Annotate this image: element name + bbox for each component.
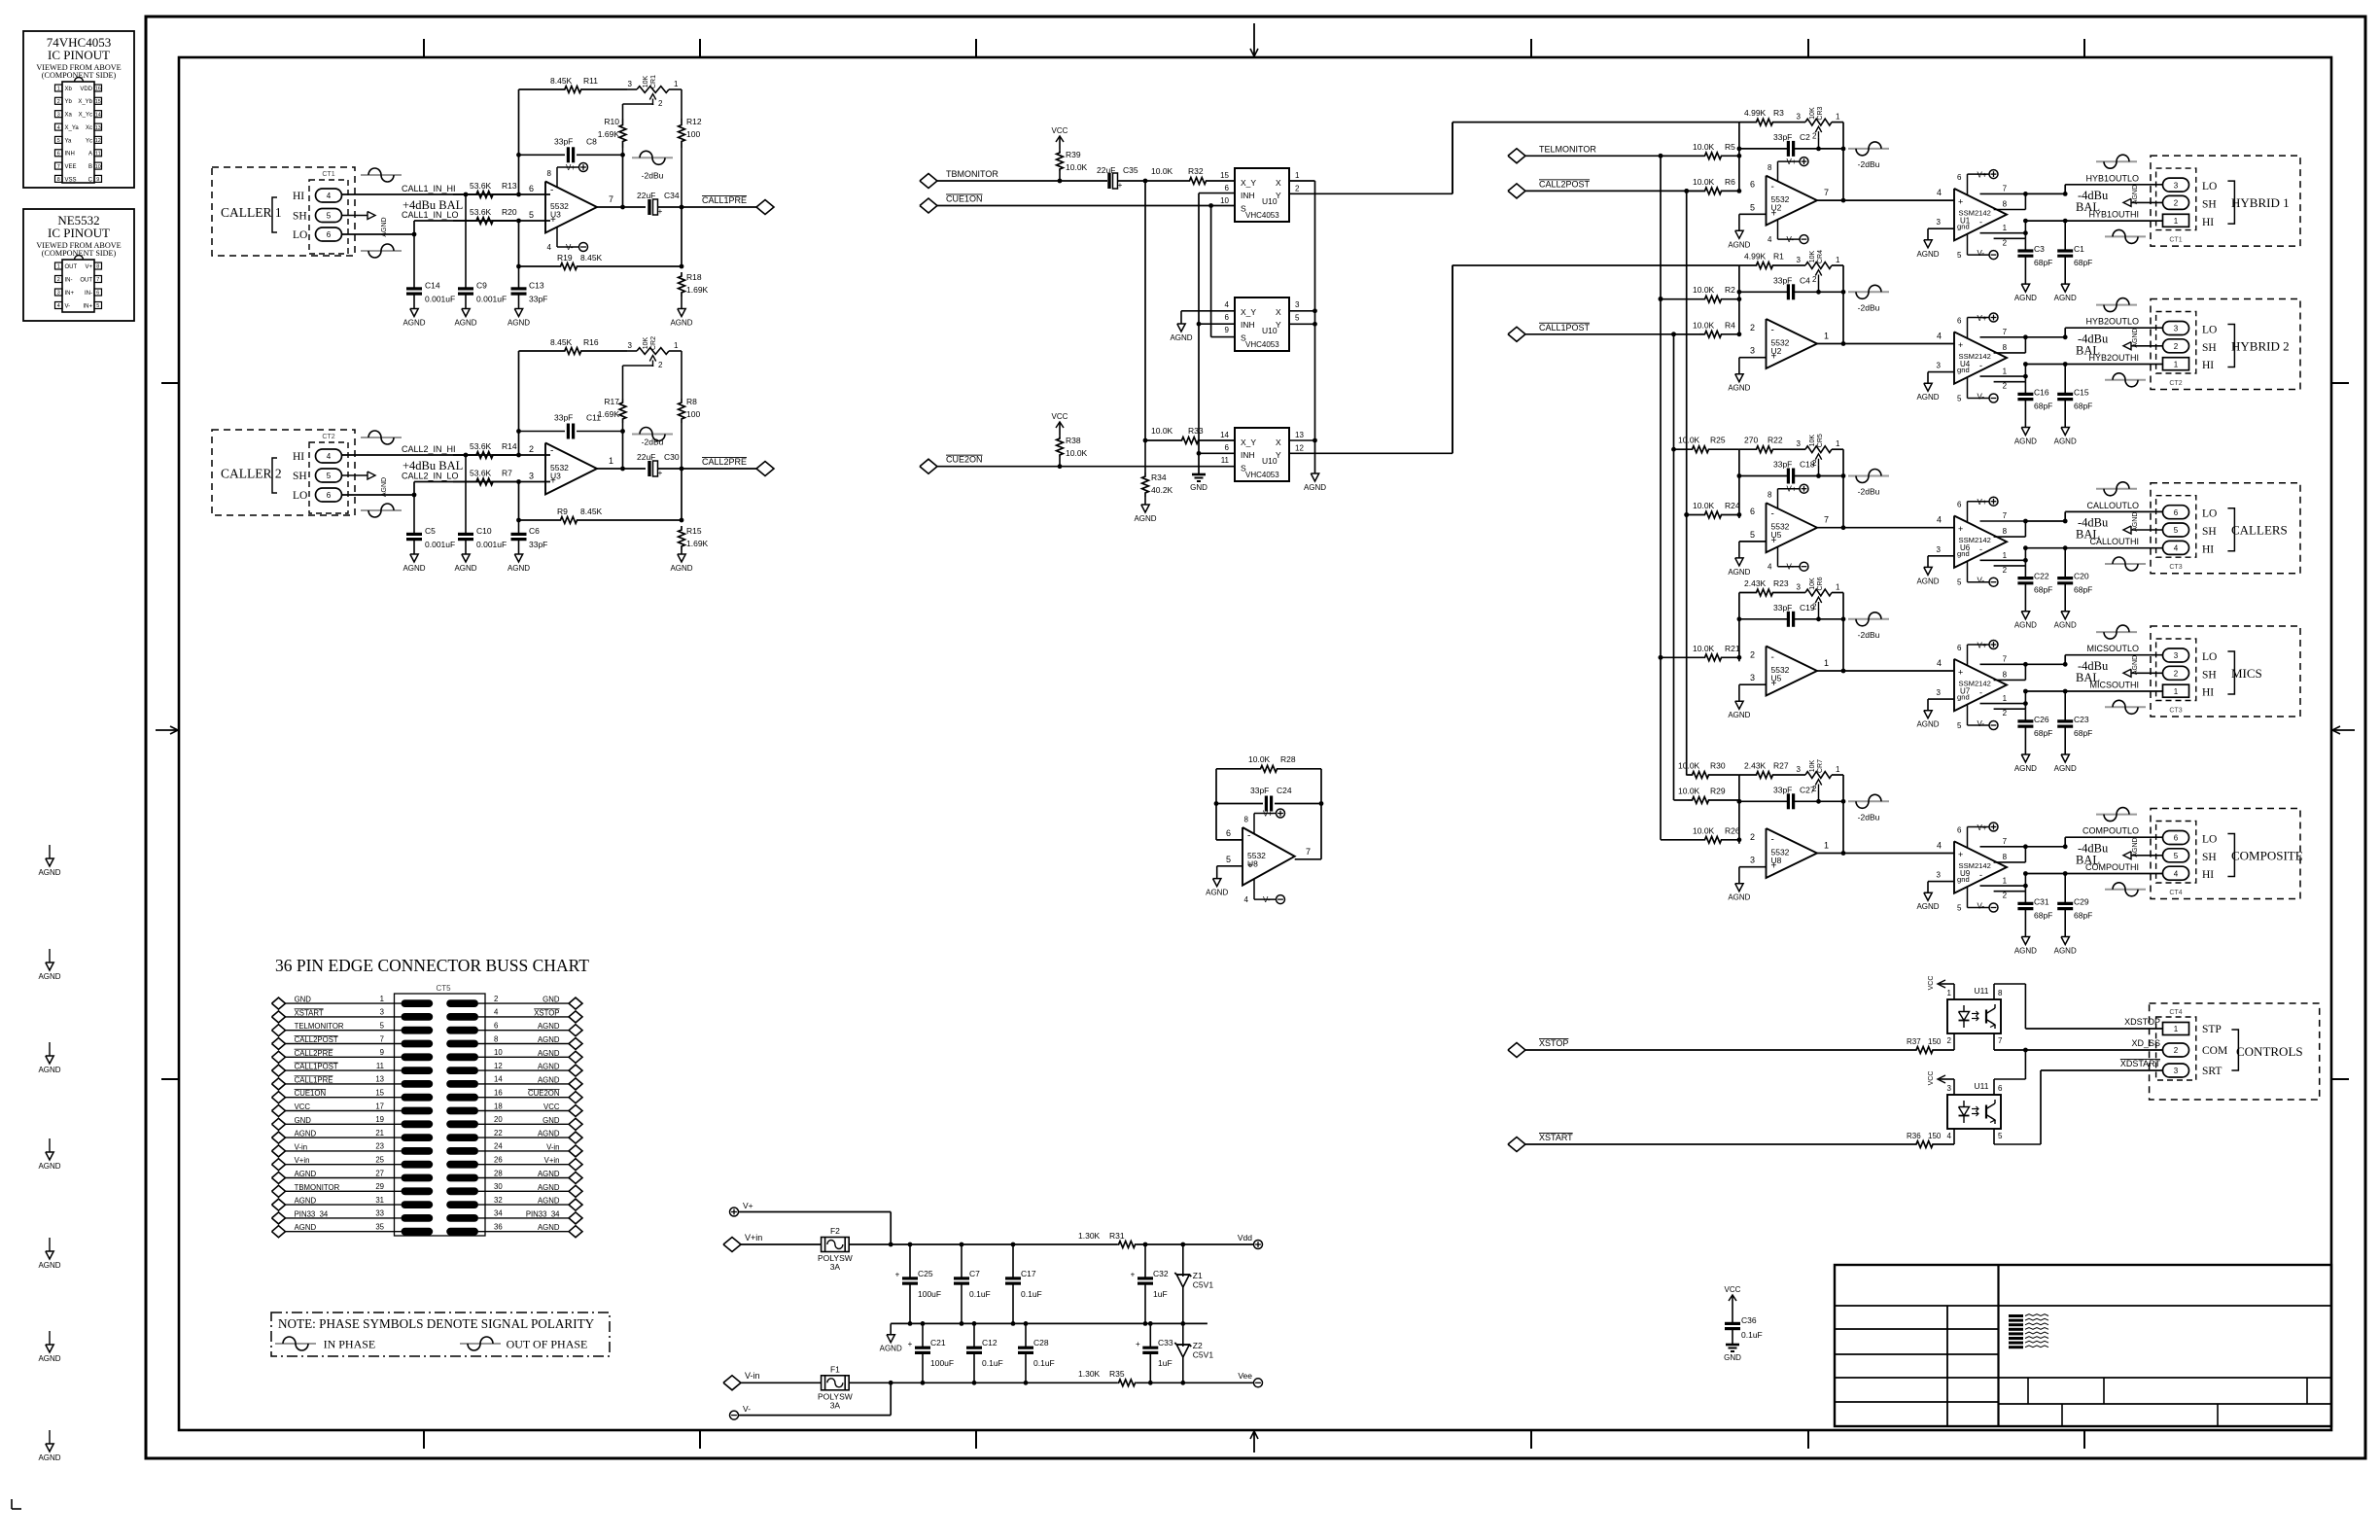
svg-text:X_Y: X_Y <box>1241 307 1256 317</box>
svg-text:8: 8 <box>494 1034 498 1043</box>
pin number 30 <box>494 1182 503 1191</box>
svg-text:HI: HI <box>2202 360 2214 371</box>
svg-text:3A: 3A <box>830 1262 841 1272</box>
net label AGND pin 22 <box>538 1130 560 1138</box>
svg-text:V+in: V+in <box>745 1233 762 1242</box>
line driver U7 SSM2142 channel 4 <box>1954 641 2007 731</box>
svg-text:-2dBu: -2dBu <box>1858 302 1880 312</box>
resistor R15 1.69K <box>679 469 709 554</box>
node diamond CALL1PRE <box>756 200 774 215</box>
phase symbol -2dBu caller 1 <box>632 151 673 180</box>
ground AGND under C16 <box>2014 428 2037 446</box>
net label COMPOUTLO <box>2082 826 2139 836</box>
svg-text:V+: V+ <box>1787 485 1797 494</box>
op-amp U8 pin numbers <box>1226 828 1311 864</box>
edge connector wire right 34 <box>478 1217 570 1219</box>
border center arrow right <box>2332 726 2355 734</box>
net label CALLOUTHI <box>2089 537 2139 546</box>
capacitor C36 0.1uF <box>1725 1309 1763 1345</box>
edge connector wire left 31 <box>285 1204 402 1206</box>
svg-text:3: 3 <box>529 472 534 481</box>
+4dBu BAL label <box>402 198 463 212</box>
svg-text:1: 1 <box>2003 694 2008 703</box>
U10c Y output wire <box>1289 265 1452 454</box>
U10b S wire <box>1211 206 1235 337</box>
svg-text:C: C <box>88 177 93 183</box>
svg-text:3: 3 <box>1947 1084 1952 1093</box>
edge connector wire right 8 <box>478 1043 570 1045</box>
svg-text:11: 11 <box>95 151 101 157</box>
resistor R11 8.45K feedback <box>519 76 628 92</box>
connector CT4 pin 4 <box>2163 866 2189 880</box>
wire input row R21 <box>1659 655 1704 660</box>
connector CT4 label controls <box>2169 1009 2182 1016</box>
resistor R13 53.6K <box>453 181 517 197</box>
svg-text:GND: GND <box>1724 1353 1741 1362</box>
svg-text:+: + <box>658 469 663 477</box>
wire channel2 feedback row to U10c Y <box>1452 265 1739 453</box>
node diamond V-in <box>723 1376 741 1390</box>
svg-text:10.0K: 10.0K <box>1066 162 1088 172</box>
node diamond left 3 <box>272 1011 286 1023</box>
svg-text:5: 5 <box>96 303 99 309</box>
pin number 21 <box>375 1129 384 1137</box>
svg-text:-: - <box>1771 834 1774 845</box>
wire input row R24 <box>1684 512 1704 517</box>
svg-text:AGND: AGND <box>1728 384 1750 393</box>
svg-text:4: 4 <box>1937 841 1942 851</box>
svg-text:3: 3 <box>1797 113 1802 122</box>
svg-text:SRT: SRT <box>2202 1066 2222 1077</box>
svg-text:4.99K: 4.99K <box>1744 252 1767 262</box>
op-amp pin numbers caller 1 <box>529 184 613 220</box>
resistor R33 10.0K <box>1145 426 1235 443</box>
net label HYB1OUTLO <box>2085 173 2139 183</box>
SSM U1 gnd pin 3 <box>1928 218 1954 240</box>
svg-text:4: 4 <box>2174 544 2179 553</box>
node diamond left 5 <box>272 1025 286 1036</box>
svg-text:-2dBu: -2dBu <box>1858 812 1880 822</box>
SSM U6 gnd pin 3 <box>1928 545 1954 568</box>
ground AGND under C5 <box>402 554 425 573</box>
resistor R17 1.69K <box>598 366 626 432</box>
svg-text:IC PINOUT: IC PINOUT <box>48 226 110 240</box>
svg-text:1: 1 <box>1824 658 1829 668</box>
svg-text:U5: U5 <box>1771 530 1782 540</box>
node diamond TBMONITOR input <box>920 174 937 189</box>
svg-text:7: 7 <box>96 277 99 283</box>
svg-text:HI: HI <box>2202 687 2214 699</box>
connector CT1 inner dashed box channel 1 <box>2156 168 2196 230</box>
channel title HYBRID 1 <box>2231 195 2290 210</box>
CALLER 2 dashed enclosure box <box>212 430 355 515</box>
svg-text:AGND: AGND <box>2132 512 2139 532</box>
svg-text:33: 33 <box>375 1209 384 1218</box>
svg-text:CR1: CR1 <box>650 75 657 88</box>
svg-text:AGND: AGND <box>538 1035 560 1044</box>
svg-text:IN-: IN- <box>65 277 73 283</box>
svg-text:8: 8 <box>2003 527 2008 536</box>
channel title HYBRID 2 <box>2231 339 2290 354</box>
node diamond left 23 <box>272 1145 286 1157</box>
wire minus node rail caller 1 <box>516 89 521 196</box>
net label XSTART <box>1539 1133 1573 1142</box>
svg-text:1: 1 <box>674 341 679 350</box>
wire output to line driver channel 1 <box>1817 188 1954 200</box>
svg-text:AGND: AGND <box>1916 902 1939 911</box>
svg-text:AGND: AGND <box>2014 294 2037 302</box>
svg-text:100: 100 <box>686 409 700 419</box>
svg-text:TBMONITOR: TBMONITOR <box>295 1183 340 1192</box>
svg-text:CALL1POST: CALL1POST <box>1539 323 1591 332</box>
wire op-amp output caller 2 <box>597 432 646 472</box>
wire plus input to AGND channel 1 <box>1739 214 1767 230</box>
pin number 23 <box>375 1142 384 1151</box>
svg-text:-: - <box>1771 325 1774 335</box>
wire CALL1POST row <box>1525 332 1699 336</box>
net label CALLOUTLO <box>2086 501 2139 510</box>
capacitor C6 33pF <box>511 518 548 554</box>
svg-text:5: 5 <box>1226 855 1231 864</box>
line driver U9 SSM2142 channel 5 <box>1954 822 2007 913</box>
svg-text:8: 8 <box>1767 163 1772 172</box>
svg-text:C21: C21 <box>930 1338 946 1347</box>
svg-text:MICSOUTLO: MICSOUTLO <box>2086 644 2139 653</box>
terminal Vdd circle <box>1238 1233 1263 1249</box>
connector bracket channel 5 <box>2227 834 2234 877</box>
ground GND symbol INH rail <box>1190 474 1207 492</box>
node diamond right 16 <box>569 1092 582 1103</box>
trimmer potentiometer CR4 10K <box>1797 250 1843 295</box>
wire summing node rail channel 5 <box>1737 775 1742 844</box>
svg-text:-: - <box>1979 218 1982 227</box>
svg-text:8.45K: 8.45K <box>550 337 573 347</box>
ground AGND under C6 <box>507 554 530 573</box>
svg-text:-: - <box>1247 830 1250 841</box>
svg-text:10.0K: 10.0K <box>1693 142 1715 152</box>
node diamond XSTART <box>1508 1137 1525 1152</box>
node diamond right 4 <box>569 1011 582 1023</box>
svg-text:5: 5 <box>57 138 60 144</box>
edge connector pin 33 pad <box>402 1214 434 1222</box>
svg-text:1: 1 <box>1947 989 1952 997</box>
svg-text:C5: C5 <box>425 526 436 536</box>
svg-text:25: 25 <box>375 1156 384 1165</box>
connector CT2 pin 3 <box>2163 322 2189 335</box>
node diamond left 27 <box>272 1172 286 1184</box>
svg-text:SH: SH <box>2202 342 2217 354</box>
svg-text:6: 6 <box>1225 184 1230 192</box>
svg-text:3: 3 <box>1295 300 1300 309</box>
ground AGND plus input channel 5 <box>1728 884 1750 902</box>
connector signal label LO channel 1 <box>2202 181 2217 192</box>
wire input row R5 <box>1659 154 1704 158</box>
pin number 20 <box>494 1115 503 1124</box>
svg-text:R12: R12 <box>686 117 702 126</box>
svg-text:TELMONITOR: TELMONITOR <box>1539 144 1596 154</box>
svg-text:+: + <box>1118 181 1123 190</box>
SSM U6 pin 1 and 2 sense loop <box>1980 551 2028 575</box>
U10c X output wire <box>1289 438 1317 443</box>
capacitor C33 1uF <box>1136 1323 1173 1382</box>
shield AGND arrow channel 3 <box>2123 512 2163 534</box>
node diamond right 14 <box>569 1078 582 1090</box>
edge connector pin 22 pad <box>446 1134 478 1141</box>
svg-text:68pF: 68pF <box>2074 911 2092 921</box>
resistor R23 2.43K feedback <box>1739 578 1805 596</box>
svg-text:COMPOUTLO: COMPOUTLO <box>2082 826 2139 836</box>
connector signal label SH channel 3 <box>2202 526 2217 538</box>
ground AGND under C23 <box>2054 754 2077 773</box>
connector signal label SH channel 1 <box>2202 198 2217 210</box>
bus rail CALL2POST vertical <box>1684 191 1689 775</box>
terminal Vee circle <box>1238 1371 1262 1387</box>
in-phase label <box>324 1338 376 1351</box>
svg-text:LO: LO <box>293 490 307 502</box>
ground AGND under C1 <box>2054 284 2077 302</box>
svg-text:100uF: 100uF <box>930 1358 954 1368</box>
net label HYB1OUTHI <box>2088 210 2139 220</box>
74VHC4053 IC pinout title box <box>23 31 134 188</box>
edge connector pin 1 pad <box>402 999 434 1007</box>
edge connector wire left 17 <box>285 1110 402 1112</box>
channel title CALLERS <box>2231 523 2288 538</box>
svg-text:C35: C35 <box>1123 165 1138 175</box>
opto U11b pin numbers <box>1947 1084 2003 1140</box>
edge connector wire right 30 <box>478 1190 570 1192</box>
svg-text:OUT: OUT <box>80 277 92 283</box>
trimmer potentiometer CR1 10K <box>623 75 682 108</box>
resistor R12 100 <box>679 89 702 207</box>
svg-text:150: 150 <box>1928 1132 1942 1140</box>
ground AGND plus input channel 4 <box>1728 701 1750 719</box>
capacitor C34 22uF output <box>637 191 756 216</box>
edge connector pin 11 pad <box>402 1067 434 1074</box>
svg-text:7: 7 <box>2003 837 2008 846</box>
wire HI output channel 3 <box>2023 545 2163 560</box>
svg-text:GND: GND <box>295 996 312 1004</box>
svg-text:270: 270 <box>1744 436 1758 445</box>
svg-text:2: 2 <box>1947 1036 1952 1045</box>
edge connector pin 35 pad <box>402 1228 434 1236</box>
svg-text:8: 8 <box>96 264 99 270</box>
svg-text:NOTE: PHASE SYMBOLS DENOTE SIG: NOTE: PHASE SYMBOLS DENOTE SIGNAL POLARI… <box>278 1316 595 1331</box>
resistor R31 1.30K <box>1078 1231 1137 1247</box>
connector CT5 label <box>436 984 451 993</box>
node diamond left 25 <box>272 1159 286 1171</box>
pin number 32 <box>494 1196 503 1205</box>
svg-text:-: - <box>1771 182 1774 192</box>
svg-text:68pF: 68pF <box>2034 402 2052 411</box>
svg-text:AGND: AGND <box>38 1453 60 1462</box>
svg-text:22uF: 22uF <box>637 191 655 200</box>
analog switch U10 section C VHC4053 <box>1235 428 1289 481</box>
-4dBu BAL label channel 5 <box>2076 842 2109 867</box>
node diamond XSTOP <box>1508 1043 1525 1058</box>
svg-text:AGND: AGND <box>507 319 530 328</box>
svg-text:3: 3 <box>2174 1067 2179 1075</box>
svg-text:+: + <box>908 1340 913 1348</box>
edge connector wire right 20 <box>478 1123 570 1125</box>
wire R35 to Vee <box>1137 1381 1254 1385</box>
svg-text:1: 1 <box>2174 217 2179 226</box>
svg-text:AGND: AGND <box>2014 437 2037 446</box>
svg-text:-: - <box>1771 509 1774 520</box>
edge connector pin 3 pad <box>402 1013 434 1021</box>
svg-text:PIN33_34: PIN33_34 <box>295 1209 329 1218</box>
svg-text:30: 30 <box>494 1182 503 1191</box>
pin number 25 <box>375 1156 384 1165</box>
phase symbol -2dBu channel 2 <box>1848 285 1889 312</box>
svg-text:8: 8 <box>547 169 552 178</box>
svg-text:AGND: AGND <box>2054 621 2077 630</box>
CALLER 2 label <box>221 458 282 493</box>
svg-text:U11: U11 <box>1975 1081 1989 1091</box>
fuse F2 POLYSW 3A <box>818 1226 853 1272</box>
svg-text:HYBRID 1: HYBRID 1 <box>2231 195 2290 210</box>
ground AGND at U10b X_Y <box>1170 324 1192 342</box>
ground AGND plus input channel 3 <box>1728 558 1750 577</box>
edge connector pin 14 pad <box>446 1080 478 1088</box>
net label AGND pin 6 <box>538 1022 560 1031</box>
resistor R3 4.99K feedback <box>1739 108 1805 125</box>
svg-text:4: 4 <box>1937 515 1942 525</box>
svg-text:INH: INH <box>65 152 75 157</box>
svg-text:VCC: VCC <box>1052 412 1068 421</box>
svg-text:AGND: AGND <box>454 564 476 573</box>
svg-text:(COMPONENT SIDE): (COMPONENT SIDE) <box>42 249 117 258</box>
phase symbol top connector channel 5 <box>2096 808 2137 822</box>
svg-text:6: 6 <box>1226 828 1231 838</box>
net label XDSTART <box>2120 1059 2161 1068</box>
svg-text:C28: C28 <box>1033 1338 1049 1347</box>
svg-text:Z2: Z2 <box>1193 1341 1203 1350</box>
resistor R19 8.45K <box>519 253 684 269</box>
svg-text:R32: R32 <box>1188 166 1204 176</box>
capacitor C22 68pF <box>2017 566 2052 612</box>
svg-text:V-in: V-in <box>546 1142 559 1151</box>
title block logo scribble <box>2009 1314 2048 1347</box>
edge connector wire left 27 <box>285 1177 402 1179</box>
svg-text:V+: V+ <box>1977 823 1987 832</box>
svg-text:22uF: 22uF <box>1097 165 1115 175</box>
wire CALL1POST into R4 <box>1699 333 1704 335</box>
U10b pin numbers <box>1225 300 1300 334</box>
capacitor C32 1uF <box>1131 1244 1169 1323</box>
net label TELMONITOR pin 5 <box>295 1022 344 1031</box>
svg-text:LO: LO <box>2202 325 2217 336</box>
svg-text:7: 7 <box>1824 188 1829 197</box>
svg-text:CALL1PRE: CALL1PRE <box>702 195 747 205</box>
CALLER 1 label <box>221 197 282 232</box>
svg-text:Vdd: Vdd <box>1238 1233 1252 1242</box>
net label VCC pin 17 <box>295 1102 311 1111</box>
-4dBu BAL label channel 2 <box>2076 332 2109 358</box>
svg-text:AGND: AGND <box>1134 514 1156 523</box>
connector signal label LO channel 3 <box>2202 508 2217 520</box>
svg-text:10K: 10K <box>1809 577 1816 590</box>
wire LO output channel 3 <box>2025 511 2162 523</box>
svg-text:2: 2 <box>658 361 663 369</box>
connector CT2 pin 5 <box>316 469 342 482</box>
svg-text:5: 5 <box>529 210 534 220</box>
ground AGND mid rail stub <box>880 1323 902 1352</box>
svg-text:V-: V- <box>566 243 574 252</box>
net label XSTOP pin 4 <box>534 1008 559 1017</box>
ground AGND under R18 <box>670 309 692 328</box>
svg-text:6: 6 <box>1750 507 1755 516</box>
net label V-in pin 23 <box>295 1142 307 1151</box>
resistor R32 10.0K <box>1151 166 1235 184</box>
node diamond right 22 <box>569 1132 582 1143</box>
svg-text:-: - <box>550 186 553 196</box>
svg-text:20: 20 <box>494 1115 503 1124</box>
svg-text:BAL: BAL <box>2076 671 2100 684</box>
svg-text:7: 7 <box>1306 847 1311 857</box>
connector CT2 inner dashed box channel 2 <box>2156 312 2196 374</box>
svg-text:LO: LO <box>2202 834 2217 846</box>
wire plus input to AGND channel 2 <box>1739 358 1767 374</box>
edge connector wire left 21 <box>285 1137 402 1138</box>
connector CT2 label <box>322 434 334 440</box>
svg-text:10.0K: 10.0K <box>1151 166 1173 176</box>
svg-text:C1: C1 <box>2074 244 2084 254</box>
trimmer potentiometer CR3 10K <box>1797 106 1843 151</box>
edge connector pin 29 pad <box>402 1187 434 1195</box>
capacitor C8 33pF feedback <box>519 136 625 162</box>
net label GND pin 1 <box>295 996 312 1004</box>
svg-text:CT3: CT3 <box>2169 564 2182 571</box>
svg-text:+: + <box>895 1271 900 1279</box>
wire feedback right rail channel 5 <box>1841 775 1846 856</box>
svg-text:5: 5 <box>2174 526 2179 535</box>
net label XDSTOP <box>2124 1017 2160 1027</box>
svg-text:0.1uF: 0.1uF <box>982 1358 1003 1368</box>
net label AGND pin 28 <box>538 1170 560 1178</box>
svg-text:CALL2POST: CALL2POST <box>1539 179 1591 189</box>
wire U8 feedback rails <box>1216 769 1321 859</box>
svg-text:CR4: CR4 <box>1817 250 1824 263</box>
capacitor C9 0.001uF <box>458 194 507 309</box>
net label CUE2ON pin 16 <box>528 1089 560 1098</box>
node diamond right 12 <box>569 1065 582 1076</box>
svg-text:1: 1 <box>674 80 679 88</box>
node diamond left 19 <box>272 1118 286 1130</box>
wire LO output channel 5 <box>2025 837 2162 849</box>
wire R37 to opto <box>1938 1033 1954 1050</box>
ground AGND under switch rail <box>1304 473 1326 492</box>
svg-text:1: 1 <box>2003 224 2008 232</box>
svg-text:Y: Y <box>1276 191 1281 200</box>
node diamond right 2 <box>569 997 582 1009</box>
svg-text:C27: C27 <box>1800 785 1815 794</box>
svg-text:C31: C31 <box>2034 897 2049 907</box>
svg-text:AGND: AGND <box>2054 294 2077 302</box>
phase symbol -2dBu channel 1 <box>1848 142 1889 169</box>
net label V+in pin 25 <box>295 1156 310 1165</box>
svg-text:X_Y: X_Y <box>1241 178 1256 188</box>
node diamond V+in <box>723 1238 741 1252</box>
svg-text:BAL: BAL <box>2076 854 2100 867</box>
svg-text:R28: R28 <box>1280 754 1296 764</box>
svg-text:3: 3 <box>1750 673 1755 682</box>
resistor R10 1.69K <box>598 104 626 155</box>
note box dash-dot border <box>271 1312 610 1356</box>
svg-text:INH: INH <box>1241 191 1255 200</box>
svg-text:VEE: VEE <box>65 164 77 170</box>
svg-text:VHC4053: VHC4053 <box>1245 471 1279 479</box>
svg-text:gnd: gnd <box>1957 693 1970 702</box>
